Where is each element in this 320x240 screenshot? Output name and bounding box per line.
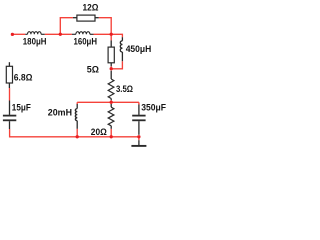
svg-text:6.8Ω: 6.8Ω [14,72,33,83]
wire [138,137,140,140]
capacitor C2 350uF [132,105,145,135]
svg-text:20mH: 20mH [48,107,72,118]
svg-text:180μH: 180μH [23,37,47,48]
svg-text:3.5Ω: 3.5Ω [116,84,133,95]
wire [10,129,139,137]
node D [110,101,113,104]
svg-text:5Ω: 5Ω [87,64,100,75]
wire [111,61,122,69]
inductor L4 20mH [75,104,77,129]
svg-text:15μF: 15μF [12,102,31,113]
resistor R3 6.8 ohm [6,62,12,88]
inductor L2 160uH [72,32,94,35]
svg-text:450μH: 450μH [126,44,152,55]
svg-text:20Ω: 20Ω [91,127,107,138]
resistor R1 12 ohm [73,15,99,21]
node B [110,33,113,36]
resistor R5 20 ohm [108,104,114,129]
node C [110,67,113,70]
wire [99,18,112,35]
wire [60,18,73,35]
wire [76,129,78,137]
wire [9,88,11,101]
node F [110,135,113,138]
node terminal input [11,33,14,36]
resistor R2 5 ohm [108,40,114,66]
capacitor C1 15uF [3,101,16,130]
svg-text:12Ω: 12Ω [83,2,99,13]
wire [110,100,112,102]
wire [138,102,140,104]
ground [131,140,146,146]
wire [110,129,112,137]
wire [110,34,112,40]
node G [137,135,140,138]
inductor L1 180uH [25,32,44,35]
wire [77,101,139,103]
wire [110,66,112,69]
wire [45,33,72,35]
wire [14,33,25,35]
svg-text:350μF: 350μF [141,102,166,113]
node A [59,33,62,36]
wire [76,102,78,104]
inductor L3 450uH [120,37,122,61]
svg-text:160μH: 160μH [74,37,98,48]
node E [76,135,79,138]
resistor R4 3.5 ohm [108,71,114,101]
wire [94,34,123,37]
